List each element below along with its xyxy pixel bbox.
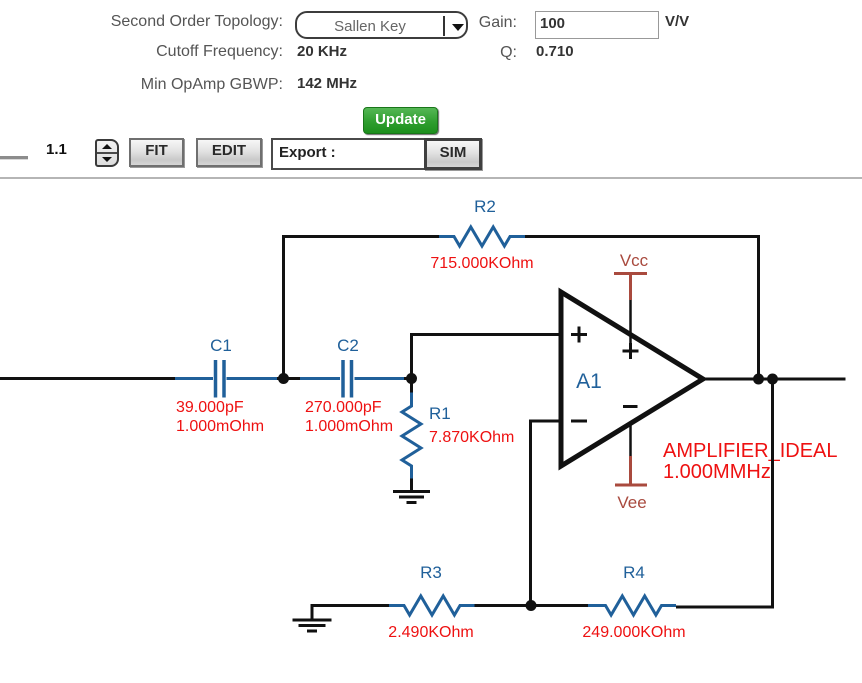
svg-text:AMPLIFIER_IDEAL: AMPLIFIER_IDEAL xyxy=(663,440,838,462)
wire: output down to R4 xyxy=(676,379,773,607)
value: 20 KHz xyxy=(297,44,347,59)
resistor R1 (vertical) xyxy=(410,379,413,394)
wire: output xyxy=(700,378,846,381)
svg-text:7.870KOhm: 7.870KOhm xyxy=(429,429,514,446)
label: Cutoff Frequency xyxy=(0,44,283,60)
svg-text:2.490KOhm: 2.490KOhm xyxy=(388,624,473,641)
node out1 junction dot xyxy=(753,374,764,385)
label: Q xyxy=(400,45,517,61)
wire: feedback top/right down to output xyxy=(525,237,759,375)
dropdown: Sallen Key xyxy=(295,11,468,39)
wire: R3 to R4 xyxy=(475,604,590,607)
ground (bottom left) xyxy=(312,606,390,621)
Vcc rail bar xyxy=(614,272,647,275)
svg-text:R1: R1 xyxy=(429,404,451,423)
label: Min OpAmp GBWP xyxy=(0,77,283,93)
export box xyxy=(271,138,482,170)
label: Gain xyxy=(400,15,517,31)
svg-text:270.000pF: 270.000pF xyxy=(305,399,382,416)
svg-text:Vcc: Vcc xyxy=(620,251,649,270)
svg-text:A1: A1 xyxy=(576,370,602,393)
svg-text:R2: R2 xyxy=(474,197,496,216)
svg-text:39.000pF: 39.000pF xyxy=(176,399,244,416)
svg-text:715.000KOhm: 715.000KOhm xyxy=(430,255,533,272)
resistor R2 xyxy=(439,227,526,246)
svg-text:Vee: Vee xyxy=(617,493,646,512)
svg-text:1.000mOhm: 1.000mOhm xyxy=(176,418,264,435)
zoom value 1.1 xyxy=(46,142,67,157)
capacitor C2 xyxy=(300,360,406,398)
svg-text:1.000MMHz: 1.000MMHz xyxy=(663,461,771,483)
separator line xyxy=(0,177,862,179)
node B junction dot xyxy=(404,377,413,380)
input: gain 100 xyxy=(535,11,659,39)
op-amp input minus sign xyxy=(571,420,587,423)
spinner up/down xyxy=(95,139,119,167)
svg-text:1.000mOhm: 1.000mOhm xyxy=(305,418,393,435)
resistor R4 xyxy=(588,596,676,615)
button: FIT xyxy=(129,138,184,167)
value: 142 MHz xyxy=(297,76,357,91)
svg-text:R3: R3 xyxy=(420,563,442,582)
node out2 junction dot xyxy=(767,374,778,385)
power plus sign xyxy=(623,343,639,359)
button: Update xyxy=(363,107,438,134)
op-amp input plus sign xyxy=(571,327,587,343)
wire: feedback loop left/top xyxy=(284,237,441,379)
value: 0.710 xyxy=(536,44,574,59)
svg-text:R4: R4 xyxy=(623,563,645,582)
label: V/V xyxy=(665,14,689,29)
Vcc pin wire xyxy=(629,274,632,301)
svg-text:C1: C1 xyxy=(210,336,232,355)
wire: minus input from bottom node xyxy=(531,421,562,606)
wire: input line xyxy=(0,377,178,380)
capacitor C1 xyxy=(175,360,279,398)
ground (below R1) xyxy=(393,492,430,503)
node A junction dot xyxy=(278,373,289,384)
resistor R3 xyxy=(389,596,476,615)
Vee pin wire xyxy=(629,423,632,456)
svg-text:249.000KOhm: 249.000KOhm xyxy=(582,624,685,641)
wire: node A stubs xyxy=(277,377,301,380)
op-amp A1 triangle xyxy=(561,292,703,466)
button: EDIT xyxy=(196,138,262,167)
power minus sign xyxy=(623,405,638,408)
Vee rail bar xyxy=(615,484,647,487)
node C junction dot xyxy=(526,600,537,611)
label: Second Order Topology xyxy=(0,14,283,30)
svg-text:C2: C2 xyxy=(337,336,359,355)
slider track stub xyxy=(0,156,28,160)
wire: node B to op-amp plus input xyxy=(412,335,562,379)
button: SIM xyxy=(424,138,482,170)
